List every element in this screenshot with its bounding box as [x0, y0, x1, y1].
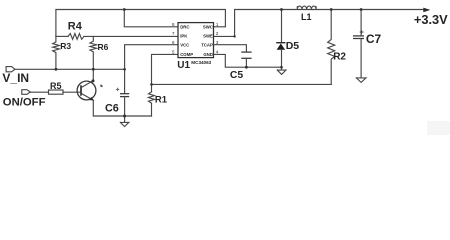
svg-text:MC34063: MC34063	[191, 60, 211, 65]
svg-text:C7: C7	[366, 32, 382, 46]
svg-text:R2: R2	[333, 52, 346, 63]
svg-text:4: 4	[216, 50, 219, 55]
svg-text:1: 1	[216, 22, 219, 27]
svg-text:C5: C5	[230, 70, 244, 81]
svg-text:SWE: SWE	[203, 34, 213, 39]
svg-text:TCAP: TCAP	[201, 43, 213, 48]
svg-text:SWC: SWC	[203, 25, 213, 30]
svg-text:+3.3V: +3.3V	[414, 12, 448, 27]
svg-text:U1: U1	[177, 60, 190, 71]
svg-text:COMP: COMP	[180, 52, 193, 57]
svg-text:8: 8	[172, 22, 175, 27]
svg-text:L1: L1	[301, 12, 312, 22]
svg-text:R6: R6	[98, 42, 109, 52]
svg-text:D5: D5	[286, 40, 300, 52]
svg-text:IPK: IPK	[180, 34, 188, 39]
svg-text:GND: GND	[203, 52, 213, 57]
svg-text:ON/OFF: ON/OFF	[3, 96, 46, 108]
svg-text:R1: R1	[155, 95, 168, 106]
svg-text:5: 5	[172, 50, 175, 55]
svg-text:2: 2	[216, 31, 219, 36]
svg-text:DRC: DRC	[180, 25, 189, 30]
svg-text:VCC: VCC	[180, 43, 189, 48]
svg-text:V_IN: V_IN	[2, 71, 29, 85]
svg-text:7: 7	[172, 31, 175, 36]
svg-text:R3: R3	[60, 41, 71, 51]
svg-text:R5: R5	[50, 81, 62, 91]
svg-text:R4: R4	[68, 21, 83, 33]
svg-text:C6: C6	[105, 103, 119, 115]
